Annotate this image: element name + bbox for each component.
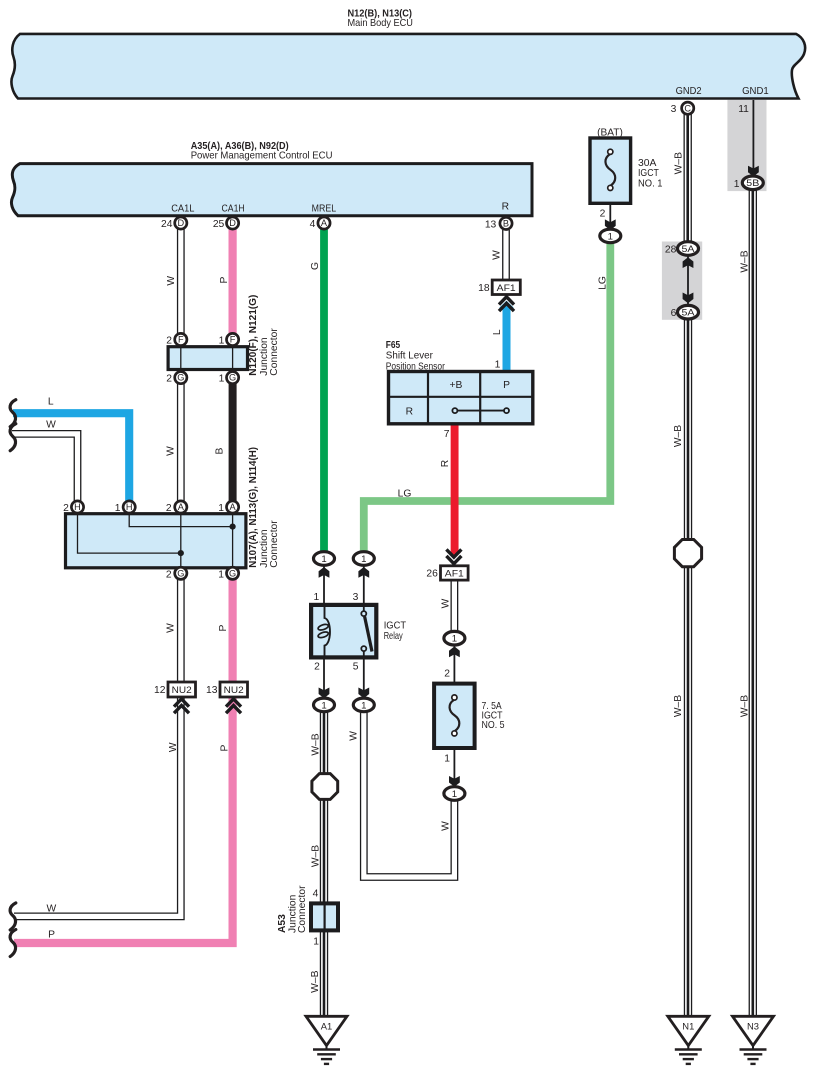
svg-text:4: 4	[310, 219, 316, 230]
svg-text:AF1: AF1	[497, 283, 516, 294]
svg-text:2: 2	[600, 209, 606, 220]
svg-text:W: W	[441, 598, 452, 608]
svg-text:W: W	[46, 420, 56, 431]
svg-text:25: 25	[213, 219, 225, 230]
svg-text:2: 2	[444, 669, 450, 680]
svg-text:H: H	[74, 502, 81, 512]
svg-text:5: 5	[353, 662, 359, 673]
svg-text:MREL: MREL	[312, 203, 337, 214]
svg-text:A: A	[321, 218, 328, 228]
svg-text:W: W	[348, 731, 359, 741]
svg-text:3: 3	[353, 592, 359, 603]
svg-text:P: P	[219, 744, 230, 751]
svg-text:B: B	[503, 219, 509, 229]
svg-text:2: 2	[166, 569, 172, 580]
svg-text:GND1: GND1	[742, 86, 769, 97]
svg-text:1: 1	[313, 937, 319, 948]
svg-text:GND2: GND2	[676, 86, 702, 97]
svg-text:26: 26	[426, 569, 438, 580]
svg-text:7: 7	[444, 429, 450, 440]
svg-text:1: 1	[219, 374, 225, 385]
svg-text:P: P	[503, 380, 510, 391]
svg-text:Relay: Relay	[384, 631, 404, 642]
svg-text:R: R	[502, 202, 509, 213]
svg-text:Connector: Connector	[297, 885, 308, 933]
svg-text:F: F	[178, 335, 184, 345]
svg-text:NO. 1: NO. 1	[638, 178, 663, 189]
svg-text:W–B: W–B	[310, 845, 321, 867]
svg-text:1: 1	[444, 753, 450, 764]
svg-text:13: 13	[206, 685, 218, 696]
svg-text:NU2: NU2	[172, 685, 192, 696]
svg-text:(BAT): (BAT)	[597, 128, 623, 139]
svg-text:LG: LG	[398, 488, 412, 499]
svg-text:1: 1	[313, 592, 319, 603]
svg-text:2: 2	[314, 662, 320, 673]
svg-text:A: A	[230, 502, 237, 512]
svg-text:W: W	[166, 276, 177, 286]
svg-text:CA1H: CA1H	[222, 203, 245, 214]
svg-text:G: G	[177, 373, 184, 383]
svg-text:W: W	[440, 821, 451, 831]
svg-text:1: 1	[115, 503, 121, 514]
svg-text:N3: N3	[747, 1021, 759, 1032]
svg-text:12: 12	[154, 685, 166, 696]
svg-text:2: 2	[166, 374, 172, 385]
svg-text:A: A	[178, 502, 185, 512]
svg-text:D: D	[229, 218, 236, 228]
svg-text:W: W	[166, 446, 177, 456]
svg-text:W–B: W–B	[310, 733, 321, 755]
svg-text:D: D	[177, 218, 184, 228]
svg-text:N107(A), N113(G), N114(H): N107(A), N113(G), N114(H)	[248, 447, 259, 568]
svg-text:NO. 5: NO. 5	[482, 720, 505, 731]
svg-text:W: W	[492, 250, 503, 260]
svg-text:1: 1	[219, 336, 225, 347]
svg-text:AF1: AF1	[445, 569, 464, 580]
svg-text:1: 1	[734, 179, 740, 190]
svg-text:P: P	[48, 930, 55, 941]
svg-text:H: H	[126, 502, 133, 512]
svg-text:1: 1	[361, 700, 366, 711]
svg-text:2: 2	[166, 503, 172, 514]
svg-text:Connector: Connector	[269, 328, 280, 376]
svg-text:1: 1	[218, 503, 224, 514]
svg-text:1: 1	[608, 231, 613, 242]
svg-text:+B: +B	[449, 380, 462, 391]
svg-text:W–B: W–B	[740, 695, 751, 717]
svg-text:NU2: NU2	[224, 685, 244, 696]
svg-text:G: G	[229, 568, 236, 578]
svg-text:N120(F), N121(G): N120(F), N121(G)	[248, 295, 259, 376]
svg-text:A53: A53	[277, 914, 288, 933]
svg-text:28: 28	[665, 245, 677, 256]
svg-text:2: 2	[166, 336, 172, 347]
svg-text:W: W	[166, 623, 177, 633]
svg-text:1: 1	[495, 359, 501, 370]
svg-text:A1: A1	[321, 1021, 332, 1032]
svg-text:W–B: W–B	[673, 425, 684, 447]
svg-text:W: W	[168, 742, 179, 752]
svg-text:P: P	[218, 624, 229, 631]
svg-text:W–B: W–B	[740, 250, 751, 272]
svg-text:Connector: Connector	[269, 520, 280, 568]
svg-text:1: 1	[218, 569, 224, 580]
svg-text:N1: N1	[682, 1021, 694, 1032]
svg-text:5B: 5B	[746, 178, 759, 189]
svg-text:W–B: W–B	[673, 152, 684, 174]
svg-text:L: L	[492, 329, 503, 335]
svg-text:Power Management Control ECU: Power Management Control ECU	[191, 151, 333, 162]
svg-text:Main Body ECU: Main Body ECU	[348, 18, 413, 29]
svg-text:13: 13	[485, 219, 497, 230]
svg-text:1: 1	[452, 634, 457, 645]
svg-text:Shift Lever: Shift Lever	[386, 351, 434, 362]
svg-text:3: 3	[671, 104, 677, 115]
svg-text:5A: 5A	[682, 308, 696, 319]
svg-text:P: P	[219, 276, 230, 283]
svg-text:G: G	[229, 373, 236, 383]
svg-text:B: B	[215, 447, 226, 454]
svg-text:1: 1	[321, 700, 326, 711]
svg-text:1: 1	[321, 554, 326, 565]
svg-text:24: 24	[161, 219, 173, 230]
svg-text:1: 1	[361, 554, 366, 565]
svg-text:2: 2	[63, 503, 69, 514]
svg-text:R: R	[440, 460, 451, 467]
svg-text:LG: LG	[598, 276, 609, 290]
svg-text:4: 4	[313, 889, 319, 900]
svg-text:R: R	[406, 406, 413, 417]
svg-text:F: F	[230, 335, 236, 345]
svg-text:F65: F65	[386, 340, 401, 351]
svg-text:W–B: W–B	[310, 970, 321, 992]
svg-text:18: 18	[478, 283, 490, 294]
svg-text:1: 1	[452, 789, 457, 800]
svg-text:Position Sensor: Position Sensor	[386, 362, 446, 373]
svg-text:5A: 5A	[682, 244, 696, 255]
svg-text:CA1L: CA1L	[171, 203, 194, 214]
svg-text:G: G	[177, 568, 184, 578]
svg-text:W–B: W–B	[673, 695, 684, 717]
svg-text:11: 11	[738, 104, 749, 115]
svg-text:C: C	[684, 103, 691, 113]
svg-text:G: G	[310, 262, 321, 270]
svg-text:L: L	[48, 396, 54, 407]
svg-text:W: W	[47, 903, 57, 914]
svg-text:6: 6	[671, 308, 677, 319]
